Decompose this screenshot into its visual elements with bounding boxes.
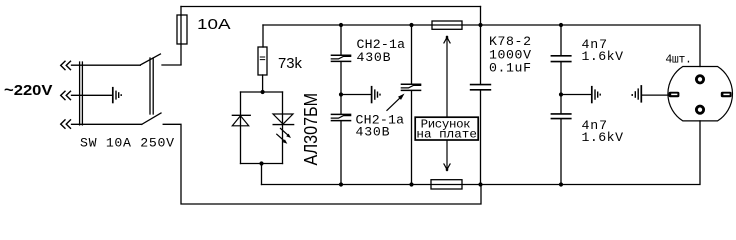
svg-text:430В: 430В — [356, 125, 390, 140]
svg-text:1.6kV: 1.6kV — [582, 49, 624, 64]
svg-text:~220V: ~220V — [4, 83, 53, 99]
svg-text:73k: 73k — [278, 56, 303, 72]
svg-text:10A: 10A — [197, 17, 231, 33]
svg-text:430В: 430В — [357, 50, 391, 65]
svg-text:SW 10A 250V: SW 10A 250V — [80, 136, 174, 151]
svg-text:АЛ307БМ: АЛ307БМ — [301, 93, 322, 166]
svg-text:1.6kV: 1.6kV — [582, 130, 624, 145]
svg-text:на плате: на плате — [416, 128, 477, 142]
svg-text:0.1uF: 0.1uF — [489, 61, 531, 76]
svg-text:4шт.: 4шт. — [665, 53, 692, 66]
